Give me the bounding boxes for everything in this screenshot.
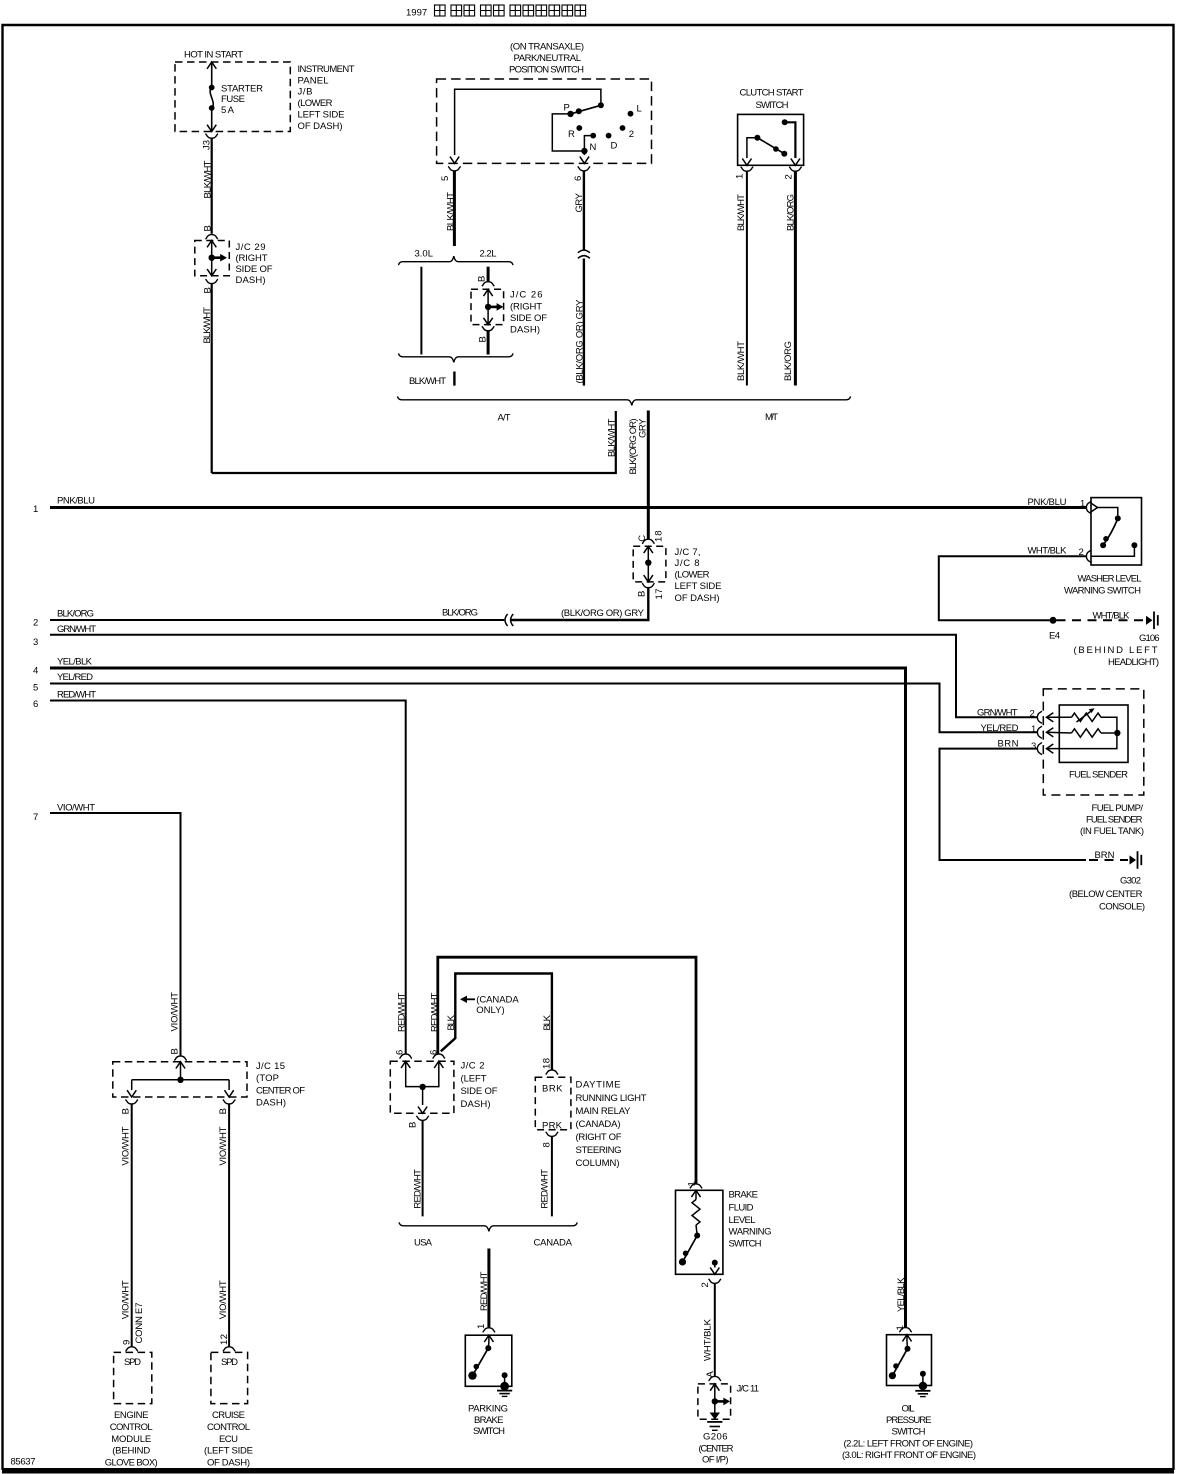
connector cup above J/C 29 xyxy=(205,235,218,239)
brace under 3.0L/2.2L alternatives xyxy=(399,353,514,362)
wire BLK (Canada only) xyxy=(441,974,552,1070)
svg-text:(CENTER: (CENTER xyxy=(699,1443,734,1454)
svg-text:2: 2 xyxy=(33,618,38,629)
svg-text:18: 18 xyxy=(542,1058,553,1069)
svg-text:L: L xyxy=(637,104,642,115)
connector cup above J/C 26 xyxy=(482,282,495,286)
connector pin 1 cup xyxy=(1086,501,1090,514)
svg-text:B: B xyxy=(170,1048,181,1054)
svg-text:CLUTCH START: CLUTCH START xyxy=(740,87,804,98)
svg-text:1997: 1997 xyxy=(406,8,427,19)
instrument panel J/B box (dashed) xyxy=(175,62,290,132)
svg-text:PNK/BLU: PNK/BLU xyxy=(57,496,95,507)
svg-text:ECU: ECU xyxy=(219,1434,238,1445)
wire WHT/BLK to J/C 11 xyxy=(714,1283,716,1376)
svg-text:CONTROL: CONTROL xyxy=(110,1422,153,1433)
resistor in brake fluid switch xyxy=(692,1200,700,1226)
contact N xyxy=(590,133,596,139)
svg-text:CANADA: CANADA xyxy=(534,1238,573,1249)
svg-text:PNK/BLU: PNK/BLU xyxy=(1028,497,1067,508)
wire RED/WHT J/C 2 to brake fluid switch xyxy=(438,957,696,1183)
svg-text:9: 9 xyxy=(122,1340,133,1345)
svg-text:SPD: SPD xyxy=(221,1357,238,1368)
splice on circuit 2 xyxy=(505,614,508,626)
connector cup below J/C 29 xyxy=(205,279,218,283)
svg-text:G206: G206 xyxy=(703,1432,728,1443)
svg-text:VIO/WHT: VIO/WHT xyxy=(121,1126,132,1165)
wire (BLK/ORG OR) GRY xyxy=(583,259,585,386)
svg-text:5: 5 xyxy=(440,176,451,181)
svg-text:R: R xyxy=(568,129,575,140)
svg-text:VIO/WHT: VIO/WHT xyxy=(170,992,181,1032)
connector cup above J/C 15 xyxy=(174,1056,187,1060)
svg-text:5A: 5A xyxy=(221,105,235,116)
wire BRN to G302 xyxy=(940,749,1087,860)
contact L xyxy=(628,111,634,117)
svg-text:CENTER OF: CENTER OF xyxy=(256,1085,305,1096)
brace USA - CANADA alternatives xyxy=(399,1222,577,1231)
wire WHT/BLK dashed to G106 xyxy=(1057,619,1146,621)
svg-text:FUSE: FUSE xyxy=(221,94,245,105)
svg-text:BLK/WHT: BLK/WHT xyxy=(203,160,214,198)
connector cup pin 18 xyxy=(546,1070,559,1074)
svg-text:(3.0L: RIGHT FRONT OF ENGINE): (3.0L: RIGHT FRONT OF ENGINE) xyxy=(842,1450,976,1461)
svg-text:(BLK/ORG OR) GRY: (BLK/ORG OR) GRY xyxy=(561,608,645,619)
svg-text:B: B xyxy=(203,225,214,231)
connector pin 2 cup xyxy=(1037,711,1041,724)
svg-text:SIDE OF: SIDE OF xyxy=(461,1086,498,1097)
svg-text:SWITCH: SWITCH xyxy=(756,100,789,111)
svg-text:PRESSURE: PRESSURE xyxy=(886,1415,932,1426)
svg-text:B: B xyxy=(477,276,488,282)
PNP P-N link wire xyxy=(552,114,584,151)
junction in fuel sender xyxy=(1114,730,1120,736)
svg-text:MODULE: MODULE xyxy=(111,1434,151,1445)
brace over 3.0L/2.2L alternatives xyxy=(399,256,514,265)
svg-text:VIO/WHT: VIO/WHT xyxy=(218,1280,229,1319)
wire BLK/WHT from PNP pin 5 xyxy=(453,171,456,246)
svg-text:BLK/WHT: BLK/WHT xyxy=(446,192,457,231)
fuse STARTER FUSE 5A xyxy=(211,62,213,132)
svg-text:SIDE OF: SIDE OF xyxy=(510,313,547,324)
wire (BLK/ORG OR) GRY to circuit 2 xyxy=(511,588,649,620)
wire 6 RED/WHT to J/C 2 xyxy=(50,701,406,1054)
svg-text:GRN/WHT: GRN/WHT xyxy=(57,624,96,635)
svg-text:3: 3 xyxy=(1031,741,1036,752)
svg-text:4: 4 xyxy=(33,666,38,677)
wire 5 YEL/RED to fuel sender xyxy=(50,684,1037,733)
junction J/C 11 xyxy=(698,1384,731,1419)
svg-text:2: 2 xyxy=(1030,709,1035,720)
contact D xyxy=(606,133,612,139)
junction J/C 7, J/C 8 (LOWER LEFT SIDE OF DASH) xyxy=(633,546,666,582)
svg-text:RUNNING LIGHT: RUNNING LIGHT xyxy=(576,1093,647,1104)
connector J3 cup xyxy=(205,134,218,138)
connector cup left below J/C 15 xyxy=(125,1100,138,1104)
svg-text:DASH): DASH) xyxy=(461,1099,491,1110)
svg-text:C: C xyxy=(637,535,648,542)
resistor: fuel sender fixed xyxy=(1047,731,1072,734)
svg-text:6: 6 xyxy=(33,699,38,710)
component U1 ENGINE CONTROL MODULE (BEHIND GLOVE BOX), pin SPD xyxy=(114,1352,152,1403)
wire 2.2L branch to J/C 26 xyxy=(487,267,490,282)
svg-text:WHT/BLK: WHT/BLK xyxy=(1028,546,1068,557)
svg-text:DASH): DASH) xyxy=(256,1097,286,1108)
connector cup pin 1 xyxy=(899,1328,912,1332)
connector pin 6 cup xyxy=(578,167,591,171)
wire 2 BLK/ORG xyxy=(50,619,504,621)
svg-text:WHT/BLK: WHT/BLK xyxy=(703,1318,714,1361)
svg-text:SWITCH: SWITCH xyxy=(473,1426,505,1437)
wire 1 PNK/BLU xyxy=(50,506,1086,509)
connector cup A above J/C 11 xyxy=(709,1376,722,1380)
svg-text:WASHER LEVEL: WASHER LEVEL xyxy=(1078,573,1142,584)
ground G206 below J/C 11 xyxy=(710,1413,720,1420)
wire below J/C 26 xyxy=(487,331,490,355)
svg-text:PARK/NEUTRAL: PARK/NEUTRAL xyxy=(514,53,582,64)
wire BLK/WHT stub xyxy=(453,372,455,386)
svg-text:PARKING: PARKING xyxy=(468,1404,508,1415)
svg-text:GLOVE BOX): GLOVE BOX) xyxy=(105,1458,158,1469)
connector cup pin 1 xyxy=(690,1184,703,1188)
svg-text:(LEFT: (LEFT xyxy=(461,1073,487,1084)
svg-text:CONTROL: CONTROL xyxy=(207,1422,250,1433)
svg-text:J/C 15: J/C 15 xyxy=(256,1061,285,1072)
svg-text:(BEHIND: (BEHIND xyxy=(112,1446,150,1457)
ground G106 xyxy=(1146,616,1153,625)
svg-text:J/C 26: J/C 26 xyxy=(510,289,543,300)
svg-text:OIL: OIL xyxy=(902,1404,915,1415)
wire RED/WHT USA branch xyxy=(422,1120,424,1216)
svg-text:2: 2 xyxy=(629,129,634,140)
svg-text:1: 1 xyxy=(1080,499,1085,510)
svg-text:BLK/WHT: BLK/WHT xyxy=(202,307,213,344)
svg-text:BRAKE: BRAKE xyxy=(474,1415,504,1426)
connector cup above cruise ECU xyxy=(223,1347,236,1351)
svg-text:B: B xyxy=(408,1122,419,1128)
wire BRN dashed to G302 xyxy=(1089,859,1128,861)
svg-text:J/C 8: J/C 8 xyxy=(675,558,700,569)
junction at N output xyxy=(581,148,587,154)
svg-text:VIO/WHT: VIO/WHT xyxy=(218,1126,229,1165)
svg-text:(RIGHT: (RIGHT xyxy=(236,253,268,264)
connector pin 3 cup xyxy=(1037,742,1041,755)
connector cup below J/C 26 xyxy=(482,326,495,330)
svg-text:(TOP: (TOP xyxy=(256,1073,279,1084)
svg-text:BLK/ORG: BLK/ORG xyxy=(442,608,478,619)
svg-text:(LOWER: (LOWER xyxy=(675,569,710,580)
svg-text:J/B: J/B xyxy=(298,87,313,98)
svg-text:BLK/WHT: BLK/WHT xyxy=(736,341,747,381)
wire RED/WHT to parking brake switch xyxy=(487,1249,490,1328)
svg-text:OF DASH): OF DASH) xyxy=(675,593,720,604)
svg-text:A/T: A/T xyxy=(498,413,511,424)
wire 3 GRN/WHT to fuel sender xyxy=(50,635,1037,718)
wire RED/WHT CANADA branch xyxy=(551,1136,553,1216)
svg-text:LEFT SIDE: LEFT SIDE xyxy=(675,581,722,592)
svg-text:1: 1 xyxy=(1031,724,1036,735)
svg-text:6: 6 xyxy=(573,176,584,181)
svg-text:DAYTIME: DAYTIME xyxy=(576,1080,621,1091)
svg-text:LEVEL: LEVEL xyxy=(729,1215,756,1226)
connector cup right above J/C 2 xyxy=(432,1054,445,1058)
PNP switch blade P contact xyxy=(571,105,601,114)
wire WHT/BLK to E4 xyxy=(939,556,1087,620)
connector cup below J/C 2 xyxy=(416,1116,429,1120)
connector cup C above J/C 7,8 xyxy=(642,539,655,543)
svg-text:OF DASH): OF DASH) xyxy=(207,1458,250,1469)
svg-text:BLK/WHT: BLK/WHT xyxy=(607,418,618,457)
svg-text:HEADLIGHT): HEADLIGHT) xyxy=(1108,657,1159,668)
svg-text:(BELOW CENTER: (BELOW CENTER xyxy=(1069,889,1143,900)
svg-text:YEL/BLK: YEL/BLK xyxy=(57,656,93,667)
component FUEL SENDER (FUEL PUMP/FUEL SENDER IN FUEL TANK) xyxy=(1043,689,1144,795)
svg-text:85637: 85637 xyxy=(11,1457,36,1468)
svg-text:SIDE OF: SIDE OF xyxy=(236,264,273,275)
svg-text:RED/WHT: RED/WHT xyxy=(540,1169,551,1209)
svg-text:USA: USA xyxy=(414,1238,433,1249)
svg-text:CONN E7: CONN E7 xyxy=(134,1303,145,1344)
svg-text:5: 5 xyxy=(33,683,38,694)
resistor: fuel level sender (variable) xyxy=(1047,716,1072,718)
svg-text:BRAKE: BRAKE xyxy=(729,1190,759,1201)
wire 4 YEL/BLK to oil pressure switch xyxy=(50,668,906,1327)
svg-text:BLK/ORG: BLK/ORG xyxy=(785,194,796,231)
connector cup B below J/C 7,8 xyxy=(642,583,655,587)
svg-text:STEERING: STEERING xyxy=(576,1145,622,1156)
connector cup pin 8 xyxy=(546,1132,559,1136)
svg-text:1: 1 xyxy=(33,504,38,515)
svg-text:B: B xyxy=(121,1108,132,1114)
svg-text:INSTRUMENT: INSTRUMENT xyxy=(298,64,355,75)
svg-text:WARNING: WARNING xyxy=(729,1227,772,1238)
svg-text:DASH): DASH) xyxy=(236,275,266,286)
svg-text:OF DASH): OF DASH) xyxy=(298,121,343,132)
ground G302 xyxy=(1130,855,1137,864)
connector cup parking brake pin 1 xyxy=(483,1328,496,1332)
svg-text:RED/WHT: RED/WHT xyxy=(57,689,96,700)
svg-text:2: 2 xyxy=(784,174,795,179)
svg-text:GRY: GRY xyxy=(638,418,649,438)
svg-text:BLK/WHT: BLK/WHT xyxy=(736,194,747,231)
switch S5 BRAKE FLUID LEVEL WARNING SWITCH xyxy=(676,1190,723,1274)
svg-text:SWITCH: SWITCH xyxy=(729,1238,762,1249)
connector cup right below J/C 15 xyxy=(223,1100,236,1104)
svg-text:YEL/RED: YEL/RED xyxy=(981,723,1019,734)
svg-text:PRK: PRK xyxy=(542,1120,563,1131)
svg-text:(RIGHT OF: (RIGHT OF xyxy=(576,1132,622,1143)
svg-text:DASH): DASH) xyxy=(510,325,540,336)
svg-text:LEFT SIDE: LEFT SIDE xyxy=(298,110,345,121)
junction J/C 15 (TOP CENTER OF DASH) xyxy=(113,1062,247,1097)
svg-text:(RIGHT: (RIGHT xyxy=(510,302,542,313)
svg-text:FLUID: FLUID xyxy=(729,1202,754,1213)
ground at parking brake switch xyxy=(497,1390,512,1392)
svg-text:YEL/BLK: YEL/BLK xyxy=(896,1277,907,1312)
svg-text:BLK/ORG: BLK/ORG xyxy=(57,609,94,620)
splice on GRY wire xyxy=(578,250,590,253)
svg-text:7: 7 xyxy=(33,812,38,823)
svg-text:SPD: SPD xyxy=(124,1357,141,1368)
svg-text:BLK: BLK xyxy=(446,1014,457,1030)
wire BLK/WHT clutch pin 1 xyxy=(746,171,748,385)
wire BLK/WHT down from J/C 29 xyxy=(211,284,213,473)
wire BLK/(ORG OR) GRY down to J/C 7,8 xyxy=(647,411,650,539)
svg-text:RED/WHT: RED/WHT xyxy=(397,992,408,1032)
arrow out of J/B bottom xyxy=(207,125,216,132)
svg-text:(IN FUEL TANK): (IN FUEL TANK) xyxy=(1080,826,1144,837)
svg-text:BLK: BLK xyxy=(542,1014,553,1030)
wire 3.0L branch xyxy=(420,267,422,355)
svg-text:RED/WHT: RED/WHT xyxy=(479,1271,490,1311)
svg-text:FUEL SENDER: FUEL SENDER xyxy=(1069,770,1128,781)
svg-text:8: 8 xyxy=(542,1142,553,1147)
connector pin 2 cup xyxy=(789,167,802,171)
svg-text:BRK: BRK xyxy=(542,1084,563,1095)
svg-text:M/T: M/T xyxy=(765,412,778,423)
wire BLK/ORG clutch pin 2 xyxy=(794,171,797,385)
svg-text:GRY: GRY xyxy=(574,192,585,212)
switch S3 WASHER LEVEL WARNING SWITCH xyxy=(1091,498,1142,565)
svg-text:(2.2L: LEFT FRONT OF ENGINE): (2.2L: LEFT FRONT OF ENGINE) xyxy=(844,1438,974,1449)
svg-text:17: 17 xyxy=(654,589,665,600)
svg-text:HOT IN START: HOT IN START xyxy=(184,50,243,61)
node E4 xyxy=(1050,617,1057,624)
svg-text:N: N xyxy=(590,142,597,153)
svg-text:J/C 29: J/C 29 xyxy=(236,242,266,253)
svg-text:FUEL PUMP/: FUEL PUMP/ xyxy=(1092,803,1144,814)
connector pin 2 cup xyxy=(1086,550,1090,563)
svg-text:RED/WHT: RED/WHT xyxy=(413,1169,424,1209)
wire 7 VIO/WHT to J/C 15 xyxy=(50,813,181,1056)
svg-text:2.2L: 2.2L xyxy=(480,249,497,260)
clutch switch internals xyxy=(785,122,796,158)
connector pin 5 cup xyxy=(448,167,461,171)
junction J/C 26 (RIGHT SIDE OF DASH) xyxy=(471,289,504,324)
svg-text:(LEFT SIDE: (LEFT SIDE xyxy=(204,1446,253,1457)
junction J/C 29 (RIGHT SIDE OF DASH) xyxy=(195,241,230,276)
component U2 CRUISE CONTROL ECU (LEFT SIDE OF DASH), pin SPD xyxy=(211,1352,248,1403)
svg-text:COLUMN): COLUMN) xyxy=(576,1158,620,1169)
contact 2 xyxy=(620,125,626,131)
wire VIO/WHT to ECM xyxy=(131,1104,133,1347)
wire VIO/WHT to cruise ECU xyxy=(228,1104,230,1347)
svg-text:B: B xyxy=(636,591,647,597)
svg-text:STARTER: STARTER xyxy=(221,83,263,94)
svg-text:FUEL SENDER: FUEL SENDER xyxy=(1086,815,1143,826)
wire BLK/WHT fuse to J/C 29 xyxy=(211,138,213,234)
svg-text:J/C 11: J/C 11 xyxy=(737,1383,760,1394)
connector cup above ECM xyxy=(125,1347,138,1351)
svg-text:2: 2 xyxy=(700,1282,711,1287)
svg-text:BLK/WHT: BLK/WHT xyxy=(409,376,446,387)
ground at oil pressure switch xyxy=(915,1390,930,1392)
svg-text:OF I/P): OF I/P) xyxy=(702,1454,729,1465)
connector pin 1 cup xyxy=(1037,726,1041,739)
svg-text:VIO/WHT: VIO/WHT xyxy=(57,802,95,813)
switch S4 PARKING BRAKE SWITCH xyxy=(465,1335,512,1386)
parking brake ground contact xyxy=(502,1372,508,1378)
svg-text:VIO/WHT: VIO/WHT xyxy=(121,1280,132,1319)
svg-text:(LOWER: (LOWER xyxy=(298,98,333,109)
svg-text:(CANADA): (CANADA) xyxy=(576,1119,621,1130)
svg-text:(BLK/ORG OR) GRY: (BLK/ORG OR) GRY xyxy=(575,299,586,384)
wire BLK/WHT across to A/T-M/T brace xyxy=(212,411,616,473)
svg-text:12: 12 xyxy=(219,1334,230,1345)
wire pin 3 to junction xyxy=(1047,733,1117,749)
svg-text:WARNING SWITCH: WARNING SWITCH xyxy=(1064,586,1141,597)
svg-text:WHT/BLK: WHT/BLK xyxy=(1093,610,1131,621)
svg-text:GRN/WHT: GRN/WHT xyxy=(977,708,1018,719)
switch S6 OIL PRESSURE SWITCH xyxy=(887,1335,932,1386)
svg-text:J/C 2: J/C 2 xyxy=(461,1061,485,1072)
svg-text:YEL/RED: YEL/RED xyxy=(57,672,93,683)
svg-text:POSITION SWITCH: POSITION SWITCH xyxy=(509,65,584,76)
connector cup pin 2 xyxy=(709,1279,722,1283)
arrow up to HOT IN START xyxy=(207,62,216,69)
contact R xyxy=(576,125,582,131)
svg-text:J/C 7,: J/C 7, xyxy=(675,547,701,558)
wire GRY from PNP pin 6 xyxy=(583,171,585,250)
svg-text:G106: G106 xyxy=(1139,633,1160,644)
connector cup left above J/C 2 xyxy=(399,1054,412,1058)
connector pin 1 cup xyxy=(741,167,754,171)
svg-text:(BEHIND LEFT: (BEHIND LEFT xyxy=(1074,645,1158,656)
svg-text:CONSOLE): CONSOLE) xyxy=(1099,902,1145,913)
svg-text:SWITCH: SWITCH xyxy=(892,1426,926,1437)
junction J/C 2 (LEFT SIDE OF DASH) xyxy=(390,1061,454,1113)
svg-text:18: 18 xyxy=(654,531,665,543)
svg-text:E4: E4 xyxy=(1049,630,1060,641)
svg-text:ENGINE: ENGINE xyxy=(114,1410,149,1421)
svg-text:MAIN RELAY: MAIN RELAY xyxy=(576,1106,632,1117)
svg-text:(ON TRANSAXLE): (ON TRANSAXLE) xyxy=(510,42,584,53)
svg-text:PANEL: PANEL xyxy=(298,76,329,87)
svg-text:CRUISE: CRUISE xyxy=(212,1410,245,1421)
svg-text:BLK/ORG: BLK/ORG xyxy=(783,341,794,381)
wire inside PNP switch xyxy=(455,89,601,155)
svg-text:3.0L: 3.0L xyxy=(415,249,434,260)
svg-text:D: D xyxy=(611,141,618,152)
svg-text:ONLY): ONLY) xyxy=(476,1005,505,1016)
svg-text:B: B xyxy=(218,1108,229,1114)
svg-text:3: 3 xyxy=(33,637,38,648)
svg-text:P: P xyxy=(564,103,570,114)
svg-text:1: 1 xyxy=(735,174,746,179)
brace A/T - M/T alternatives xyxy=(398,396,851,405)
svg-text:G302: G302 xyxy=(1120,876,1141,887)
note (CANADA ONLY) with arrow xyxy=(463,998,475,1000)
